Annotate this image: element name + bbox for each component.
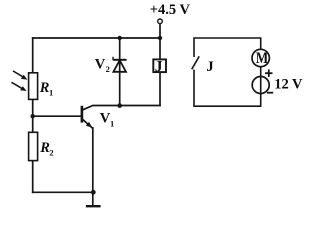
svg-text:+4.5 V: +4.5 V (150, 2, 191, 18)
svg-text:2: 2 (106, 64, 110, 74)
svg-text:1: 1 (49, 88, 53, 98)
svg-text:12 V: 12 V (274, 77, 303, 93)
svg-text:J: J (155, 58, 163, 75)
svg-text:1: 1 (110, 118, 114, 128)
svg-text:M: M (256, 50, 269, 67)
svg-text:2: 2 (49, 147, 53, 157)
svg-text:J: J (206, 59, 213, 75)
svg-text:V: V (95, 57, 106, 73)
